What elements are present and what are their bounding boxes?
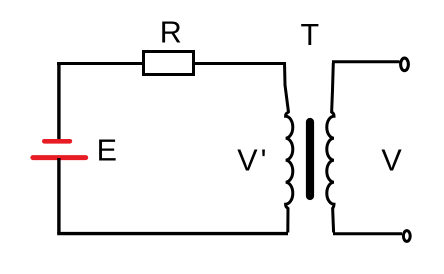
wire secondary top horizontal to terminal [332, 60, 400, 63]
transformer primary winding (4 arcs) [286, 112, 293, 209]
svg-text:V: V [237, 143, 258, 177]
svg-text:R: R [160, 16, 182, 50]
svg-text:': ' [261, 143, 267, 177]
transformer secondary winding (4 arcs) [327, 112, 334, 209]
wire resistor to transformer primary top [195, 62, 285, 65]
svg-text:V: V [381, 143, 402, 177]
battery E top plate [44, 139, 70, 144]
wire secondary bottom vertical [333, 208, 334, 233]
svg-text:E: E [97, 134, 117, 168]
wire secondary bottom horizontal to terminal [333, 232, 402, 235]
resistor R [144, 52, 194, 75]
wire primary bottom vertical [286, 208, 289, 233]
transformer core bar [306, 122, 314, 196]
terminal top (open circle) [401, 58, 409, 71]
wire secondary top vertical (slanted) [332, 63, 334, 113]
terminal bottom (open circle) [403, 231, 410, 242]
wire left vertical lower (battery - to bottom corner) [57, 158, 60, 234]
wire top-left horizontal (battery to resistor) [57, 62, 143, 65]
battery E bottom plate [33, 155, 86, 160]
svg-text:T: T [301, 18, 320, 52]
wire bottom horizontal (battery to transformer primary) [57, 232, 288, 235]
wire primary top vertical (slanted) [285, 62, 289, 113]
wire left vertical upper (top corner to battery +) [57, 62, 60, 140]
